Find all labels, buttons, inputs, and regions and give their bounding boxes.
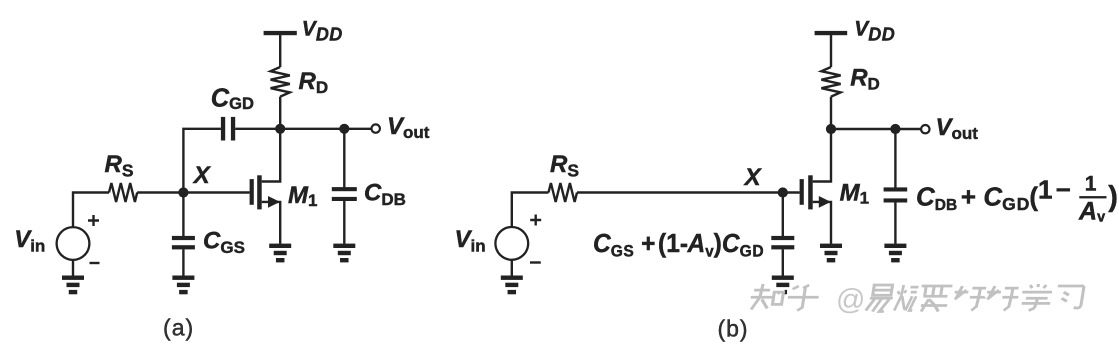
wire Vin top to RS (a) [73, 193, 109, 228]
wire output capacitor to ground (b) [894, 202, 896, 244]
wire RS to node X (a) [137, 191, 183, 193]
wire CGD to drain node (a) [235, 128, 280, 130]
junction output capacitor node (b) [890, 124, 900, 134]
capacitor CDB+CGD(1-1/Av) (b) [884, 187, 908, 202]
svg-text:Vin: Vin [455, 226, 486, 256]
wire X to CGS (a) [182, 193, 184, 237]
capacitor CGS (a) [172, 236, 195, 250]
wire CDB to ground (a) [343, 201, 345, 244]
label CGS+(1-Av)CGD (b) [593, 229, 764, 260]
wire capacitor to ground (b) [782, 249, 784, 275]
fraction bar (b) [1079, 196, 1106, 198]
wire node to CDB (a) [343, 129, 345, 188]
junction drain node (b) [826, 124, 836, 134]
svg-text:RD: RD [299, 68, 329, 97]
supply VDD bar (a) [264, 31, 297, 35]
wire drain line to Vout (a) [280, 128, 371, 130]
watermark char yi [864, 284, 895, 312]
node X junction dot (a) [178, 187, 188, 197]
ground Vin (a) [62, 276, 84, 295]
wire X up to CGD (a) [183, 129, 221, 193]
wire Vin to ground (a) [72, 260, 74, 276]
capacitor CGD (a) [221, 117, 235, 141]
ground output capacitor (b) [884, 244, 906, 263]
svg-text:@: @ [836, 284, 865, 316]
svg-text:X: X [743, 164, 763, 191]
ground input capacitor (b) [772, 276, 794, 295]
svg-text:VDD: VDD [302, 18, 343, 45]
wire Vin to ground (b) [511, 260, 513, 276]
wire VDD to RD (b) [830, 35, 832, 67]
svg-text:M1: M1 [288, 182, 317, 210]
supply VDD bar (b) [815, 31, 848, 35]
terminal Vout open circle (a) [372, 124, 380, 132]
svg-text:X: X [192, 162, 212, 189]
wire node to output capacitor (b) [894, 129, 896, 188]
wire RD to drain node (a) [279, 97, 281, 129]
watermark char yang [893, 284, 919, 311]
ground CGS (a) [172, 276, 194, 295]
node X junction dot (b) [778, 187, 788, 197]
resistor RD (a) [271, 67, 290, 97]
watermark char yao [916, 285, 953, 312]
svg-text:CDB + CGD(1 −: CDB + CGD(1 − [916, 175, 1071, 215]
wire drain line to Vout (b) [831, 128, 921, 130]
svg-text:CDB: CDB [364, 180, 406, 210]
wire RS to node X (b) [577, 191, 783, 193]
svg-text:CGS: CGS [203, 228, 245, 258]
junction drain node (a) [275, 124, 285, 134]
wire gate X to M1 (a) [183, 191, 249, 193]
ground Vin (b) [501, 276, 523, 295]
wire Vin top to RS (b) [512, 193, 549, 228]
svg-text:1: 1 [1085, 172, 1097, 195]
wire VDD to RD (a) [279, 35, 281, 67]
resistor RS (a) [109, 183, 137, 202]
voltage source Vin (a) [57, 215, 100, 263]
svg-text:Vin: Vin [14, 226, 45, 256]
svg-text:CGS + (1-Av)CGD: CGS + (1-Av)CGD [593, 229, 764, 260]
svg-text:Vout: Vout [387, 113, 430, 142]
svg-text:VDD: VDD [854, 18, 895, 45]
svg-text:M1: M1 [840, 180, 869, 208]
transistor M1 (a) [250, 129, 281, 244]
watermark char xi [1053, 285, 1084, 308]
resistor RD (b) [821, 67, 840, 97]
junction CDB node (a) [339, 124, 349, 134]
watermark char hao2 [983, 285, 1021, 311]
svg-text:Vout: Vout [936, 114, 979, 143]
svg-text:RS: RS [550, 151, 579, 181]
svg-text:CGD: CGD [211, 85, 254, 114]
svg-text:(a): (a) [163, 315, 194, 341]
watermark char hu [784, 284, 821, 311]
wire RD to drain node (b) [830, 97, 832, 129]
wire gate X to M1 (b) [783, 191, 800, 193]
transistor M1 (b) [800, 129, 831, 244]
svg-text:): ) [1108, 181, 1118, 213]
capacitor CDB (a) [332, 187, 357, 201]
watermark char xue [1018, 283, 1054, 311]
svg-text:RD: RD [850, 64, 880, 93]
svg-text:Av: Av [1078, 198, 1105, 226]
resistor RS (b) [549, 183, 578, 202]
terminal Vout open circle (b) [921, 125, 929, 133]
svg-text:(b): (b) [717, 316, 748, 342]
ground CDB (a) [333, 244, 355, 263]
ground M1 source (a) [269, 244, 291, 263]
wire CGS to ground (a) [182, 249, 184, 275]
watermark char zhi [747, 283, 785, 310]
svg-text:RS: RS [105, 151, 134, 181]
watermark char hao1 [950, 285, 988, 311]
capacitor CGS+(1-Av)CGD (b) [771, 236, 794, 250]
voltage source Vin (b) [495, 215, 541, 263]
wire X down to input capacitor (b) [782, 193, 784, 237]
ground M1 source (b) [820, 244, 842, 263]
